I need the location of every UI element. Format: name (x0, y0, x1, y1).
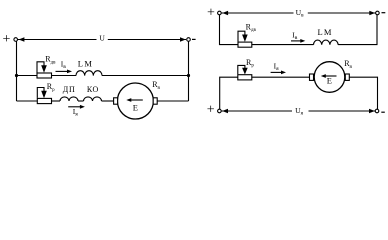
svg-text:U: U (99, 34, 105, 43)
label ДП (left circuit) (63, 85, 76, 94)
wire field branch middle (left circuit) (52, 75, 77, 77)
label Rр (right circuit) (246, 58, 254, 69)
terminal circle top right (right circuit) (376, 11, 380, 15)
terminal circle bottom left (right circuit) (218, 109, 222, 113)
inductor КО compensating winding (left circuit) (84, 97, 102, 101)
inductor ДП commutating winding (left circuit) (60, 97, 78, 101)
label Iя (right circuit) (274, 61, 280, 72)
terminal circle bottom right (right circuit) (375, 109, 379, 113)
label Rдв (left circuit) (45, 55, 56, 66)
wire armature branch left (left circuit) (17, 100, 38, 102)
rheostat Rдв wiper arrow (left circuit) (37, 62, 47, 73)
motor brush left (right circuit) (310, 74, 314, 80)
current arrow Iя (left circuit) (68, 105, 85, 109)
current arrow Iв (right circuit) (291, 39, 305, 43)
rheostat Rдв body (right circuit) (238, 42, 252, 47)
motor brush right (left circuit) (153, 98, 157, 104)
label LM (right circuit) (318, 27, 333, 37)
label E (right circuit) (327, 75, 332, 85)
wire bottom bus Uя right segment (right circuit) (309, 110, 376, 112)
svg-text:E: E (327, 75, 332, 85)
label Uя armature voltage (right circuit) (295, 106, 303, 117)
wire armature loop left bus (right circuit) (220, 77, 238, 109)
motor brush right (right circuit) (345, 74, 349, 80)
svg-text:LM: LM (78, 59, 94, 69)
wire top bus U (left circuit, right segment) (108, 39, 186, 41)
label Iя (left circuit) (73, 107, 79, 118)
label Rя armature resistance (right circuit) (344, 59, 352, 70)
wire field branch middle (right circuit) (252, 44, 314, 46)
wire top bus Uв left segment (right circuit) (221, 12, 293, 14)
label Rя armature resistance (left circuit) (152, 80, 160, 91)
label Iв (right circuit) (292, 31, 298, 42)
label КО (left circuit) (87, 85, 99, 94)
svg-text:ДП: ДП (63, 85, 76, 94)
arrowhead at - field terminal (right circuit) (369, 11, 375, 16)
wire motor to right bus (left circuit) (157, 100, 188, 102)
arrowhead at + terminal (left circuit) (19, 37, 25, 42)
arrowhead at + field terminal (right circuit) (222, 11, 228, 16)
wire top bus Uв right segment (right circuit) (308, 12, 376, 14)
terminal circle top left (right circuit) (218, 11, 222, 15)
wire armature branch to motor (right circuit) (252, 76, 310, 78)
terminal - field supply (right circuit) (382, 12, 386, 14)
label Rдв (right circuit) (246, 22, 257, 33)
terminal - armature supply (right circuit) (381, 111, 385, 113)
wire armature branch segment (left circuit) (52, 100, 61, 102)
wire field branch left (left circuit) (17, 75, 38, 77)
rheostat Rр wiper arrow (left circuit) (37, 88, 47, 99)
rheostat Rр wiper arrow (right circuit) (238, 65, 248, 74)
label Iв (left circuit) (61, 59, 67, 70)
svg-text:LM: LM (318, 27, 333, 37)
wire between ДП and КО (left circuit) (78, 100, 84, 102)
svg-text:КО: КО (87, 85, 99, 94)
rheostat Rдв body (left circuit) (37, 73, 52, 78)
terminal circle left (left circuit) (14, 38, 18, 42)
wire left bus (left circuit) (16, 41, 18, 101)
wire field loop left bus (right circuit) (220, 15, 239, 45)
svg-text:E: E (133, 103, 138, 113)
label Uв field voltage (right circuit) (296, 8, 304, 19)
current arrow Iв (left circuit) (56, 70, 73, 74)
node junction field branch right (left circuit) (187, 74, 190, 77)
motor armature E circle (left circuit) (117, 83, 153, 119)
wire field branch right + right bus (right circuit) (338, 15, 377, 45)
rheostat Rр body (left circuit) (37, 98, 51, 103)
arrowhead at + armature terminal (right circuit) (222, 109, 228, 114)
wire field branch right (left circuit) (102, 75, 189, 77)
node junction field branch left (left circuit) (15, 74, 18, 77)
EMF arrow E (left circuit) (126, 98, 143, 102)
motor brush left (left circuit) (114, 98, 118, 104)
inductor LM field winding (right circuit) (314, 40, 339, 45)
label Rр (left circuit) (47, 82, 55, 93)
rheostat Rдв wiper arrow (right circuit) (238, 31, 248, 42)
wire right bus (left circuit) (188, 41, 190, 101)
current arrow Iя (right circuit) (271, 71, 286, 75)
EMF arrow E (right circuit) (321, 74, 337, 78)
svg-text:+: + (207, 103, 215, 118)
label LM (left circuit) (78, 59, 94, 69)
terminal + left supply (left circuit) (3, 32, 11, 47)
terminal + field supply (right circuit) (207, 6, 215, 21)
wire bottom bus Uя left segment (right circuit) (221, 110, 292, 112)
svg-text:+: + (207, 6, 215, 21)
svg-text:+: + (3, 32, 11, 47)
arrowhead at - terminal (left circuit) (180, 37, 186, 42)
label U (left circuit supply voltage) (99, 34, 105, 43)
terminal circle right (left circuit) (187, 38, 191, 42)
terminal + armature supply (right circuit) (207, 103, 215, 118)
terminal - right supply (left circuit) (192, 38, 196, 40)
wire top bus U (left circuit, left segment) (18, 39, 97, 41)
rheostat Rр body (right circuit) (238, 75, 252, 80)
wire КО to motor (left circuit) (102, 100, 114, 102)
label E (left circuit) (133, 103, 138, 113)
inductor LM field winding (left circuit) (76, 71, 102, 76)
wire motor to right bus (right circuit) (349, 77, 377, 109)
motor armature E circle (right circuit) (314, 62, 345, 93)
arrowhead at - armature terminal (right circuit) (369, 109, 375, 114)
